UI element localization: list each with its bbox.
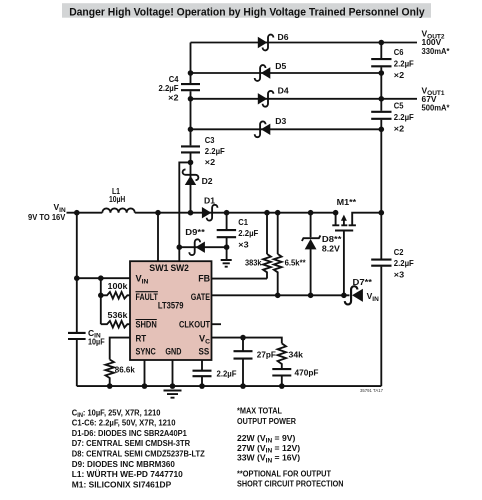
wire VC row [212,338,282,344]
svg-text:SYNC: SYNC [136,346,157,356]
svg-text:2.2µF: 2.2µF [394,112,414,122]
svg-text:C1: C1 [238,217,248,227]
svg-text:OUTPUT POWER: OUTPUT POWER [237,416,297,426]
svg-text:Danger High Voltage! Operation: Danger High Voltage! Operation by High V… [69,6,425,18]
node fault shdn tap [98,293,104,299]
capacitor CIN [68,328,105,347]
svg-text:×2: ×2 [394,70,405,80]
wire ground row [77,385,382,387]
node gnd SS [199,383,205,389]
diode D5 [255,61,287,81]
svg-text:D5: D5 [275,61,286,71]
node M1 drain [379,210,385,216]
svg-text:C2: C2 [394,247,404,257]
svg-text:M1**: M1** [337,197,357,207]
svg-text:D7: CENTRAL SEMI CMDSH-3TR: D7: CENTRAL SEMI CMDSH-3TR [72,438,191,448]
svg-text:D3: D3 [275,116,286,126]
svg-text:2.2µF: 2.2µF [394,58,414,68]
svg-text:×3: ×3 [238,239,249,249]
capacitor C6 [371,59,391,66]
svg-text:SHDN: SHDN [136,320,158,330]
diode D3 [255,116,287,137]
inductor L1 [102,186,134,213]
svg-text:34k: 34k [289,349,304,359]
wire FB row [212,278,268,280]
node dots [74,40,384,389]
svg-text:SS: SS [199,346,210,356]
svg-text:470pF: 470pF [295,367,319,377]
capacitor 470pF [272,367,318,386]
node D9 right [224,244,230,250]
svg-text:C6: C6 [394,47,404,57]
node D5 row left [188,70,194,76]
capacitor C4 [181,84,200,90]
wire D4 row / VOUT1 [191,98,418,100]
svg-text:2.2µF: 2.2µF [394,258,414,268]
node D3 row left [188,127,194,133]
node VIN rail pin [74,275,80,281]
wire SYNC pin [144,360,146,386]
svg-text:9V TO 16V: 9V TO 16V [28,212,66,222]
svg-text:100k: 100k [108,281,128,291]
svg-text:CLKOUT: CLKOUT [179,320,210,330]
node gnd SYNC [142,383,148,389]
node M1 source [333,210,339,216]
capacitor C1 [217,213,259,260]
node D1 anode [188,210,194,216]
wire fault pullup branch [100,278,102,295]
node gnd GND [170,383,176,389]
banner warning [62,3,431,18]
wire GATE row [212,294,350,296]
svg-text:D1: D1 [204,195,215,205]
wire charge-pump left column [190,43,192,213]
wire M1 gate [343,231,345,296]
svg-text:FB: FB [198,274,210,284]
diode D7 [345,277,373,305]
svg-text:D4: D4 [278,86,289,96]
svg-text:SHORT CIRCUIT PROTECTION: SHORT CIRCUIT PROTECTION [237,478,344,488]
node gnd 86.6k [107,383,113,389]
notes right column [237,405,344,488]
wire SS pin [201,360,203,386]
svg-text:35791 TA17: 35791 TA17 [360,388,384,393]
node 6.5k top [275,210,281,216]
svg-text:330mA*: 330mA* [422,46,451,56]
svg-text:C1-C6: 2.2µF, 50V, X7R, 1210: C1-C6: 2.2µF, 50V, X7R, 1210 [72,418,176,428]
svg-text:2.2µF: 2.2µF [217,368,237,378]
wire VIN pin row [77,277,130,279]
wire D3 row [191,128,382,130]
diode D1 [202,195,218,220]
resistor 86.6k [106,360,136,387]
label VOUT1 [422,85,451,112]
svg-text:D6: D6 [278,32,289,42]
node D4 row right [379,96,385,102]
node D8 bottom [308,293,314,299]
diode D6 [258,32,289,51]
node M1 gate [341,293,347,299]
wire D5 row [191,72,382,74]
svg-text:8.2V: 8.2V [322,243,340,253]
node pullup tap [98,275,104,281]
svg-text:GND: GND [165,346,181,356]
svg-text:SW1: SW1 [149,263,168,273]
node D9 left [177,244,183,250]
node VC tap [240,335,246,341]
svg-text:D9**: D9** [185,227,205,237]
wire D9 row [179,246,226,248]
node gnd 470pF [279,383,285,389]
svg-text:*MAX TOTAL: *MAX TOTAL [237,405,282,415]
svg-text:D1-D6: DIODES INC SBR2A40P1: D1-D6: DIODES INC SBR2A40P1 [72,428,187,438]
svg-text:6.5k**: 6.5k** [285,257,307,267]
IC U1 LT3579 [130,261,212,360]
node 383k top [264,210,270,216]
capacitor C2 [371,260,391,266]
diode D2 [183,169,213,185]
label VIN source [28,202,66,222]
svg-text:**OPTIONAL FOR OUTPUT: **OPTIONAL FOR OUTPUT [237,468,332,478]
svg-text:RT: RT [136,334,147,344]
svg-text:VIN: VIN [367,291,379,303]
node VIN input [74,210,80,216]
wire main SW row [67,212,336,214]
diode D4 [258,86,289,107]
node gnd 27pF [240,383,246,389]
node D1 cathode C1 [224,210,230,216]
svg-text:SW2: SW2 [171,263,189,273]
capacitor C5 [371,112,391,119]
svg-text:86.6k: 86.6k [115,364,135,374]
node D8 top [308,210,314,216]
svg-text:27pF: 27pF [257,349,276,359]
wire GND pin [172,360,174,386]
MOSFET M1 [332,197,381,231]
svg-text:D7**: D7** [353,277,373,287]
node D5 row right [379,70,385,76]
diode D9 [185,227,205,255]
svg-text:C5: C5 [394,100,404,110]
svg-text:×2: ×2 [168,92,179,102]
wire RT row [110,338,130,360]
wire CLKOUT stub [212,323,222,325]
svg-text:LT3579: LT3579 [158,300,184,310]
svg-text:×3: ×3 [394,270,405,280]
node 6.5k bottom [275,293,281,299]
resistor 6.5k [274,213,306,296]
svg-text:D9: DIODES INC MBRM360: D9: DIODES INC MBRM360 [72,459,175,469]
wire VIN rail [76,213,78,386]
svg-text:×2: ×2 [394,123,405,133]
svg-text:FAULT: FAULT [136,292,159,302]
ground at GND [164,391,182,398]
wire SW2 column [179,162,190,261]
svg-text:D2: D2 [202,176,213,186]
svg-text:10µF: 10µF [88,336,105,346]
resistor 383k [245,213,271,279]
zener D8 [302,213,342,296]
wire shdn branch [100,295,102,324]
node D3 row right [379,127,385,133]
capacitor SS 2.2uF [193,368,237,378]
svg-text:383k: 383k [245,257,262,267]
wire SW1 pin [157,213,159,262]
resistor 536k [101,310,130,328]
label VOUT2 [422,29,451,56]
svg-text:500mA*: 500mA* [422,103,451,113]
svg-text:C3: C3 [205,135,215,145]
resistor 100k [101,281,130,299]
resistor 34k [278,343,304,368]
capacitor C3 [181,146,200,152]
svg-text:L1: WÜRTH WE-PD 7447710: L1: WÜRTH WE-PD 7447710 [72,469,183,479]
wire VOUT2 top row [191,42,418,44]
svg-text:M1: SILICONIX SI7461DP: M1: SILICONIX SI7461DP [72,479,172,489]
svg-text:536k: 536k [108,310,128,320]
notes left column [72,407,205,489]
svg-text:GATE: GATE [191,292,210,302]
node C3 bottom [188,160,194,166]
node D4 row left [188,96,194,102]
svg-text:D8: CENTRAL SEMI CMDZ5237B-LTZ: D8: CENTRAL SEMI CMDZ5237B-LTZ [72,449,205,459]
svg-text:10µH: 10µH [109,194,125,204]
node VOUT2 top [379,40,385,46]
svg-text:×2: ×2 [205,157,216,167]
wire right output column [380,43,382,387]
svg-text:2.2µF: 2.2µF [205,146,225,156]
svg-text:2.2µF: 2.2µF [238,228,258,238]
node SW1 tap [155,210,161,216]
capacitor 27pF [234,338,276,387]
ground at C1 [221,260,232,267]
